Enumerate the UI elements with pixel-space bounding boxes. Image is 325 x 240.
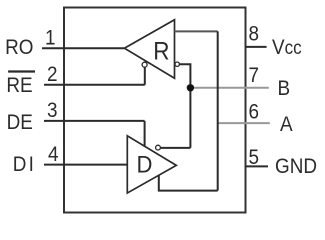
wire driver B output to node B xyxy=(160,147,190,149)
svg-text:RO: RO xyxy=(5,36,33,59)
wire pin 3 DE lead xyxy=(44,120,145,122)
inversion bubble driver B output xyxy=(156,145,161,150)
svg-text:2: 2 xyxy=(47,63,58,86)
svg-text:R: R xyxy=(153,37,169,65)
svg-text:4: 4 xyxy=(48,143,59,166)
svg-text:6: 6 xyxy=(249,101,260,124)
wire node A to pin 6 xyxy=(218,122,270,124)
driver buffer D (U1b) xyxy=(127,136,176,193)
svg-text:7: 7 xyxy=(249,64,260,87)
svg-text:A: A xyxy=(280,113,293,136)
svg-text:DI: DI xyxy=(13,153,36,176)
wire pin 4 DI lead xyxy=(44,164,127,166)
wire driver enable from pin 3 xyxy=(144,121,146,146)
IC body U1 (RS-485 transceiver outline) xyxy=(64,8,246,213)
svg-text:D: D xyxy=(137,150,153,177)
inversion bubble on receiver enable xyxy=(142,62,147,67)
wire pin 1 RO lead xyxy=(42,47,124,49)
svg-text:1: 1 xyxy=(45,27,56,50)
wire pin 2 RE lead xyxy=(44,84,145,86)
svg-text:5: 5 xyxy=(249,146,260,169)
wire receiver enable from pin 2 xyxy=(144,67,146,85)
wire pin 5 GND stub xyxy=(246,165,269,167)
svg-text:RE: RE xyxy=(6,74,32,97)
svg-text:GND: GND xyxy=(275,155,317,178)
wire receiver B input to node B xyxy=(179,64,190,148)
svg-text:8: 8 xyxy=(249,23,260,46)
svg-text:DE: DE xyxy=(7,111,33,134)
wire driver A output to node A xyxy=(159,175,218,191)
wire node B to pin 7 xyxy=(190,87,268,89)
svg-text:3: 3 xyxy=(47,99,58,122)
wire node A vertical bus xyxy=(217,31,219,190)
svg-text:Vcc: Vcc xyxy=(272,36,302,59)
node B junction dot xyxy=(187,84,194,91)
inversion bubble receiver B input xyxy=(175,62,179,66)
wire pin 8 Vcc stub xyxy=(246,46,267,48)
receiver buffer R (U1a) xyxy=(124,20,174,78)
wire receiver A input xyxy=(175,30,218,32)
svg-text:B: B xyxy=(278,77,291,100)
